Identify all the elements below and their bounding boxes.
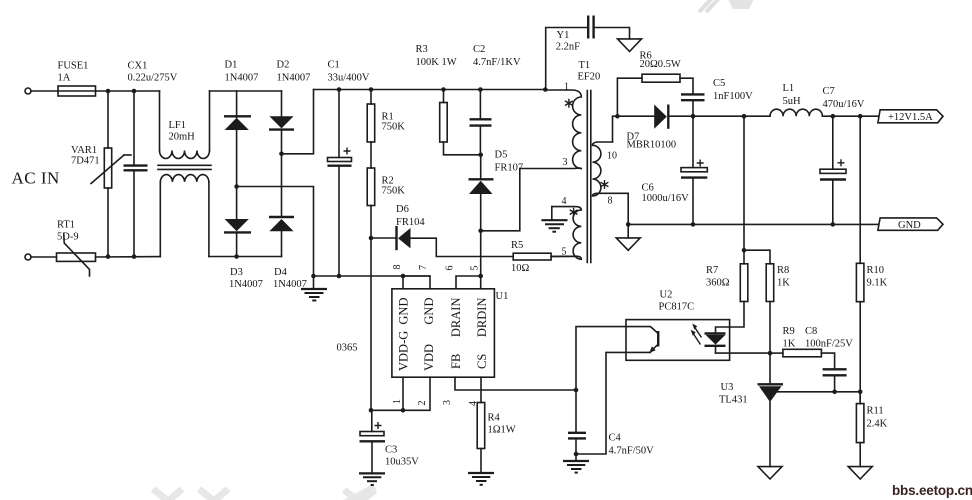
junction C1 top bbox=[337, 87, 342, 92]
light arrows (opto) bbox=[694, 328, 702, 345]
svg-text:0.22u/275V: 0.22u/275V bbox=[128, 73, 178, 84]
wire R10 drop from rail bbox=[859, 116, 861, 263]
svg-text:U3: U3 bbox=[721, 382, 734, 393]
svg-text:3: 3 bbox=[442, 400, 453, 405]
svg-text:100nF/25V: 100nF/25V bbox=[805, 339, 853, 350]
svg-text:1000u/16V: 1000u/16V bbox=[642, 193, 690, 204]
junction R10 top bbox=[858, 114, 863, 119]
wire VDD node to D6 cathode bbox=[371, 237, 397, 239]
junction bridge - midpoint bbox=[234, 184, 239, 189]
ground (primary, aux winding) bbox=[541, 219, 567, 221]
svg-text:C8: C8 bbox=[805, 326, 817, 337]
svg-text:U2: U2 bbox=[660, 290, 673, 301]
svg-text:RT1: RT1 bbox=[57, 220, 75, 231]
svg-text:R5: R5 bbox=[511, 240, 523, 251]
junction ground rail at pin8 bbox=[401, 274, 406, 279]
wire pin 10 to D7 anode bbox=[613, 116, 655, 142]
wire LED cathode to R9 node bbox=[716, 352, 771, 354]
junction CX1 bottom bbox=[132, 254, 137, 259]
svg-text:5uH: 5uH bbox=[783, 96, 802, 107]
junction R2 bottom / VDD node bbox=[369, 236, 374, 241]
varistor VAR1 bbox=[107, 91, 109, 148]
wire transformer pin3 to drain node bbox=[481, 169, 520, 231]
svg-text:1N4007: 1N4007 bbox=[229, 279, 263, 290]
svg-text:5D-9: 5D-9 bbox=[57, 232, 79, 243]
svg-text:GND: GND bbox=[422, 298, 436, 325]
capacitor Y1 bbox=[546, 28, 588, 90]
polarity asterisk (secondary) bbox=[601, 180, 609, 189]
svg-text:750K: 750K bbox=[382, 185, 406, 196]
junction clamp node (R3/C2/D5) bbox=[478, 153, 483, 158]
svg-text:FR107: FR107 bbox=[495, 163, 524, 174]
diode D2 bbox=[281, 91, 283, 116]
svg-text:10u35V: 10u35V bbox=[385, 457, 419, 468]
svg-text:750K: 750K bbox=[382, 122, 406, 133]
wire terminal to RT1 bbox=[31, 256, 57, 258]
svg-text:5: 5 bbox=[469, 266, 480, 271]
svg-text:4.7nF/50V: 4.7nF/50V bbox=[609, 446, 655, 457]
svg-text:D6: D6 bbox=[396, 204, 409, 215]
resistor R3 bbox=[441, 87, 446, 92]
svg-text:D1: D1 bbox=[225, 60, 238, 71]
node: AC terminal L (top) bbox=[25, 88, 31, 94]
junction D5 anode / drain node bbox=[478, 229, 483, 234]
junction C1 bottom bbox=[337, 274, 342, 279]
svg-text:5: 5 bbox=[562, 247, 567, 258]
wire VDD bracket to pin1 bbox=[371, 409, 403, 411]
svg-text:C3: C3 bbox=[385, 445, 397, 456]
svg-text:9.1K: 9.1K bbox=[867, 278, 888, 289]
inductor LF1 (common-mode choke) bbox=[159, 91, 161, 151]
resistor R10 bbox=[856, 263, 864, 301]
junction Y1/pin1 on HV rail bbox=[543, 87, 548, 92]
diode D3 bbox=[225, 219, 249, 231]
wire pin 8 to secondary ground bbox=[627, 193, 629, 224]
wire bridge + to HV rail bbox=[282, 90, 314, 154]
svg-text:D4: D4 bbox=[274, 267, 288, 278]
diode D5 bbox=[480, 155, 482, 179]
svg-text:D3: D3 bbox=[230, 267, 243, 278]
svg-text:EF20: EF20 bbox=[578, 72, 601, 83]
capacitor C3 bbox=[371, 410, 373, 431]
svg-text:10: 10 bbox=[607, 151, 617, 162]
wire bridge - to primary ground bbox=[237, 187, 314, 277]
svg-text:R7: R7 bbox=[706, 265, 718, 276]
pin 4 lead bbox=[480, 377, 482, 402]
svg-text:DRAIN: DRAIN bbox=[449, 298, 463, 338]
junction C4 bottom bbox=[574, 452, 579, 457]
junction pin8 ground bbox=[626, 222, 631, 227]
junction pin1 bbox=[401, 408, 406, 413]
capacitor C2 bbox=[478, 87, 483, 92]
svg-text:L1: L1 bbox=[783, 83, 795, 94]
ground (primary, C3) bbox=[359, 472, 385, 474]
svg-text:+12V1.5A: +12V1.5A bbox=[888, 112, 933, 123]
junction R7/R8 split bbox=[742, 248, 747, 253]
op-amp U1 (PWM controller IC box) bbox=[392, 289, 495, 377]
ground (primary, R4) bbox=[468, 472, 494, 474]
polarity + (C1) bbox=[344, 148, 351, 155]
svg-text:8: 8 bbox=[608, 196, 613, 207]
svg-text:CS: CS bbox=[475, 354, 489, 369]
ground (primary, bridge) bbox=[313, 276, 315, 289]
svg-text:C7: C7 bbox=[823, 86, 835, 97]
svg-text:FUSE1: FUSE1 bbox=[58, 61, 89, 72]
svg-text:LF1: LF1 bbox=[169, 120, 187, 131]
transformer T1 secondary winding (pins 10-8) bbox=[593, 142, 629, 196]
watermark chevron bottom 1 bbox=[153, 489, 182, 500]
node +12V output banner bbox=[878, 110, 943, 123]
capacitor C7 bbox=[831, 114, 836, 119]
svg-text:1: 1 bbox=[392, 399, 403, 404]
pin 4 lead to ground bbox=[551, 207, 553, 220]
svg-text:470u/16V: 470u/16V bbox=[823, 99, 865, 110]
svg-text:1nF100V: 1nF100V bbox=[713, 91, 753, 102]
node GND output banner bbox=[878, 218, 943, 230]
wire LF1 to bridge top bbox=[210, 90, 282, 92]
opto-coupler U2 bbox=[626, 320, 730, 361]
ground (primary, C4) bbox=[575, 454, 577, 461]
svg-text:C1: C1 bbox=[328, 60, 340, 71]
svg-text:GND: GND bbox=[397, 298, 411, 325]
junction divider node bbox=[858, 390, 863, 395]
svg-text:1: 1 bbox=[564, 82, 569, 93]
resistor R9 bbox=[770, 352, 783, 354]
junction C8 bottom bbox=[832, 390, 837, 395]
pin 3 lead / FB wire bbox=[455, 377, 576, 390]
wire +12V rail (D7 to L1) bbox=[668, 115, 770, 117]
svg-text:FR104: FR104 bbox=[396, 217, 425, 228]
svg-text:33u/400V: 33u/400V bbox=[328, 73, 370, 84]
svg-text:R8: R8 bbox=[777, 265, 789, 276]
svg-text:VDD-G: VDD-G bbox=[397, 331, 411, 371]
svg-text:C2: C2 bbox=[473, 44, 485, 55]
wire R7/R8 drop from rail bbox=[743, 116, 745, 250]
svg-text:6: 6 bbox=[444, 266, 455, 271]
junction C7 bottom bbox=[831, 222, 836, 227]
diode D4 bbox=[269, 216, 294, 218]
junction C5/C6 on rail bbox=[691, 114, 696, 119]
junction FB node bbox=[574, 388, 579, 393]
wire primary ground rail bbox=[314, 275, 431, 277]
watermark chevron bottom 3 bbox=[344, 487, 375, 500]
svg-text:C5: C5 bbox=[713, 78, 725, 89]
svg-text:4: 4 bbox=[562, 196, 567, 207]
svg-text:VAR1: VAR1 bbox=[71, 145, 97, 156]
capacitor C8 bbox=[823, 368, 847, 370]
svg-text:FB: FB bbox=[449, 354, 463, 369]
svg-text:MBR10100: MBR10100 bbox=[627, 140, 677, 151]
svg-text:2.4K: 2.4K bbox=[867, 419, 888, 430]
svg-text:R11: R11 bbox=[867, 406, 884, 417]
svg-text:CX1: CX1 bbox=[128, 61, 148, 72]
polarity + (C6) bbox=[697, 160, 704, 167]
capacitor C5 bbox=[681, 93, 705, 95]
pin 1 lead bbox=[402, 377, 404, 410]
svg-text:1K: 1K bbox=[777, 278, 790, 289]
capacitor C1 bbox=[338, 90, 340, 158]
transistor U2 (photo-transistor) bbox=[576, 327, 658, 390]
svg-text:2.2nF: 2.2nF bbox=[556, 42, 580, 53]
diode D7 bbox=[654, 105, 667, 129]
svg-text:8: 8 bbox=[392, 265, 403, 270]
pin 7 lead bbox=[403, 276, 430, 289]
ground (secondary, U3) bbox=[758, 467, 782, 479]
svg-text:R9: R9 bbox=[783, 326, 795, 337]
svg-text:1N4007: 1N4007 bbox=[225, 73, 259, 84]
wire secondary ground rail bbox=[628, 223, 878, 225]
resistor R7 bbox=[743, 250, 745, 264]
resistor R5 bbox=[513, 253, 551, 260]
svg-text:1N4007: 1N4007 bbox=[277, 73, 311, 84]
svg-text:0365: 0365 bbox=[337, 343, 358, 354]
resistor R2 bbox=[367, 168, 375, 206]
svg-text:10Ω: 10Ω bbox=[511, 263, 530, 274]
wire terminal to fuse bbox=[31, 90, 58, 92]
junction VDD / C3 bbox=[369, 408, 374, 413]
svg-text:GND: GND bbox=[898, 220, 921, 231]
diode D6 bbox=[395, 226, 397, 250]
svg-text:R4: R4 bbox=[488, 413, 501, 424]
fuse FUSE1 bbox=[58, 90, 96, 92]
svg-text:C6: C6 bbox=[642, 183, 654, 194]
resistor R1 bbox=[369, 87, 374, 92]
svg-text:7: 7 bbox=[418, 265, 429, 270]
svg-text:U1: U1 bbox=[496, 291, 509, 302]
node: AC terminal L (bottom) bbox=[25, 254, 31, 260]
svg-text:1Ω1W: 1Ω1W bbox=[488, 425, 516, 436]
ground (secondary, Y1) bbox=[618, 39, 642, 52]
svg-text:1K: 1K bbox=[783, 339, 796, 350]
svg-text:20mH: 20mH bbox=[169, 132, 196, 143]
resistor R6 (snubber) bbox=[615, 114, 620, 119]
svg-text:4.7nF/1KV: 4.7nF/1KV bbox=[473, 57, 521, 68]
svg-text:TL431: TL431 bbox=[719, 395, 748, 406]
svg-text:R3: R3 bbox=[416, 44, 428, 55]
junction R7/R8 drop on rail bbox=[742, 114, 747, 119]
transformer T1 core bbox=[586, 91, 588, 263]
polarity asterisk (auxiliary) bbox=[570, 208, 578, 217]
node primary ground junction bbox=[311, 274, 316, 279]
junction CX1 top bbox=[132, 89, 137, 94]
wire VDD vertical (R2/D6 to pins 1,2) bbox=[370, 238, 372, 410]
resistor R11 bbox=[859, 392, 861, 404]
junction R8/R9/U3 bbox=[768, 351, 773, 356]
watermark chevron bottom 2 bbox=[199, 489, 228, 500]
polarity + (C3) bbox=[375, 422, 382, 429]
polarity asterisk (primary) bbox=[565, 99, 573, 108]
wire LF1 to bridge bottom bbox=[209, 256, 282, 258]
transformer T1 primary winding (pins 1-3) bbox=[520, 90, 582, 169]
junction C6 bottom bbox=[691, 222, 696, 227]
thermistor RT1 bbox=[57, 253, 96, 261]
svg-text:T1: T1 bbox=[579, 60, 591, 71]
svg-text:3: 3 bbox=[563, 157, 568, 168]
polarity + (C7) bbox=[838, 159, 845, 166]
svg-text:2: 2 bbox=[417, 401, 428, 406]
junction VAR1 bottom bbox=[106, 254, 111, 259]
capacitor C6 bbox=[692, 116, 694, 167]
svg-text:D2: D2 bbox=[277, 60, 290, 71]
ground (secondary, pin8) bbox=[627, 224, 629, 238]
pin 2 lead bbox=[403, 377, 430, 410]
svg-text:C4: C4 bbox=[609, 433, 622, 444]
svg-text:1A: 1A bbox=[58, 73, 71, 84]
ground (secondary, R11) bbox=[848, 467, 872, 479]
shunt regulator U3 TL431 bbox=[769, 353, 771, 383]
svg-text:Y1: Y1 bbox=[557, 30, 570, 41]
svg-text:DRDIN: DRDIN bbox=[475, 298, 489, 338]
capacitor CX1 bbox=[133, 91, 135, 165]
junction VAR1 top bbox=[106, 89, 111, 94]
wire pin5-pin6 bracket bbox=[456, 276, 481, 289]
svg-text:100K 1W: 100K 1W bbox=[416, 57, 457, 68]
diode D1 bbox=[236, 91, 238, 117]
junction drain at U1 pin5 bbox=[478, 274, 483, 279]
svg-text:D5: D5 bbox=[495, 150, 508, 161]
wire TL431 ref to divider bbox=[778, 391, 861, 393]
svg-text:PC817C: PC817C bbox=[659, 302, 695, 313]
LED U2 (opto diode) bbox=[716, 302, 745, 334]
svg-text:360Ω: 360Ω bbox=[706, 278, 730, 289]
wire HV rail bbox=[314, 89, 546, 91]
wire fuse to LF1 top bbox=[96, 90, 160, 92]
svg-text:R10: R10 bbox=[867, 265, 885, 276]
transformer T1 auxiliary winding (pins 4-5) bbox=[551, 207, 581, 260]
svg-text:7D471: 7D471 bbox=[71, 156, 100, 167]
junction D3 bottom bbox=[234, 254, 239, 259]
resistor R8 bbox=[744, 250, 770, 264]
svg-text:bbs.eetop.cn: bbs.eetop.cn bbox=[892, 483, 972, 498]
resistor R4 bbox=[477, 403, 485, 449]
inductor L1 bbox=[770, 109, 822, 116]
svg-text:AC IN: AC IN bbox=[12, 169, 60, 188]
wire D6 anode to R5 bbox=[411, 238, 514, 256]
svg-text:VDD: VDD bbox=[422, 344, 436, 371]
capacitor C4 bbox=[575, 390, 577, 432]
junction bridge + output bbox=[279, 152, 284, 157]
watermark X top center bbox=[699, 0, 721, 12]
pin 8 lead bbox=[402, 276, 404, 289]
svg-text:20Ω0.5W: 20Ω0.5W bbox=[640, 59, 681, 70]
